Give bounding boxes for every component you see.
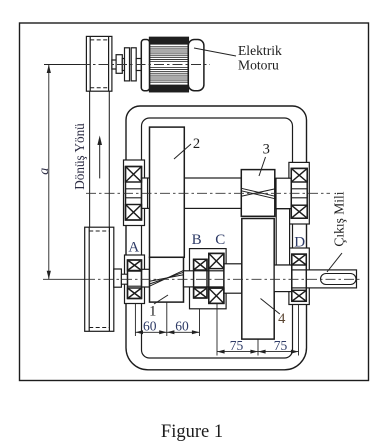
dimension a: arrowheads — [47, 65, 51, 280]
bearing B — [194, 259, 207, 298]
motor M: left end cap — [141, 40, 149, 91]
boss bearing D — [289, 248, 309, 305]
leader and label 1 — [154, 295, 168, 304]
leader and label 4 — [261, 299, 280, 315]
gear 4 — [242, 219, 274, 340]
coupling hub left — [122, 59, 124, 71]
lower shaft: collar right of pulley — [114, 269, 122, 287]
svg-text:60: 60 — [143, 319, 157, 334]
dimension 60-60 arrows — [135, 330, 199, 334]
gearbox housing inner wall — [142, 118, 293, 358]
upper shaft collar left — [147, 178, 149, 208]
belt right line — [108, 91, 110, 227]
leader Çıkış Mili — [327, 253, 342, 272]
bearing D — [292, 254, 307, 301]
centerline lower shaft — [85, 278, 361, 280]
bearing A inner ring band — [128, 271, 142, 286]
belt left line — [90, 91, 110, 227]
boss bearing A — [125, 255, 145, 304]
svg-text:Çıkış Mili: Çıkış Mili — [332, 191, 347, 246]
boss bearings B C — [190, 249, 227, 309]
dimension 75-75 extension lines — [217, 303, 299, 355]
svg-text:75: 75 — [274, 338, 288, 353]
svg-text:A: A — [128, 240, 139, 256]
svg-text:Elektrik: Elektrik — [238, 43, 282, 58]
svg-text:Figure 1: Figure 1 — [161, 422, 223, 442]
dimension a: vertical line — [43, 65, 86, 280]
coupling disc 1 — [125, 48, 130, 81]
centerline top shaft (motor/pulley) — [80, 64, 210, 66]
svg-text:C: C — [215, 232, 225, 248]
svg-text:2: 2 — [193, 136, 200, 152]
output shaft — [292, 270, 357, 288]
border frame — [20, 23, 369, 381]
svg-text:1: 1 — [149, 304, 156, 320]
output shaft keyway — [321, 274, 357, 285]
pulley P1 (top, driver) — [86, 36, 112, 91]
dimension 60-60 extension lines — [135, 302, 199, 336]
leader and label 2 — [174, 144, 191, 159]
gear 2 — [150, 127, 185, 257]
centerline upper gear shaft — [86, 192, 330, 194]
pulley P2 (bottom, driven) — [85, 227, 114, 331]
motor M: ribbed body — [150, 37, 189, 91]
lower shaft between gear1 and bearings B C — [184, 271, 242, 287]
lower shaft collar left of D — [274, 265, 292, 292]
gear 3 — [241, 170, 274, 217]
upper shaft collar right of gear 3 — [276, 178, 291, 208]
bearing upper-left — [126, 167, 142, 221]
svg-text:D: D — [294, 234, 305, 250]
upper shaft between bearings — [142, 178, 242, 208]
boss upper-left bearing — [124, 160, 145, 226]
svg-text:4: 4 — [278, 311, 286, 327]
lower shaft stub through bearing A — [121, 274, 141, 284]
sleeve between gear 4 hub and bearing D — [276, 209, 289, 265]
leader Elektrik Motoru — [194, 48, 236, 56]
gear 1 helical teeth hatch — [150, 270, 184, 286]
motor M: right end cap — [188, 40, 204, 91]
gear 3 helical teeth hatch — [241, 188, 274, 198]
bearing C — [209, 253, 224, 303]
rotation direction arrow — [97, 136, 102, 179]
gear 1 (pinion) — [150, 257, 184, 302]
upper shaft stub in right bearing — [291, 189, 307, 198]
bearing upper-right — [291, 168, 307, 218]
svg-text:B: B — [192, 232, 202, 248]
bearing A — [128, 260, 142, 299]
svg-text:60: 60 — [175, 319, 189, 334]
upper shaft stub in left bearing — [126, 189, 142, 198]
svg-text:Motoru: Motoru — [238, 58, 279, 73]
dimension 75-75 arrows — [217, 350, 299, 354]
svg-text:75: 75 — [230, 338, 244, 353]
coupling disc 2 — [131, 48, 136, 81]
shaft step right of top pulley — [112, 48, 141, 81]
leader and label 3 — [259, 157, 266, 176]
svg-text:Dönüş Yönü: Dönüş Yönü — [72, 123, 87, 190]
boss upper-right bearing — [289, 162, 309, 224]
gearbox housing outer wall — [126, 106, 307, 370]
coupling hub right — [136, 59, 141, 71]
svg-text:3: 3 — [263, 142, 270, 158]
motor M: rib fins — [150, 37, 189, 91]
lower shaft collar right of A — [142, 269, 150, 287]
lower shaft collar between C and gear 4 — [224, 264, 242, 293]
svg-text:a: a — [37, 168, 52, 175]
